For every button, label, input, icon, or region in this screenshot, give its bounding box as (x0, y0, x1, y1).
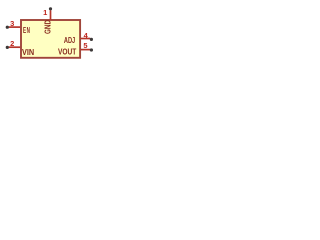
svg-text:1: 1 (43, 8, 47, 17)
svg-text:2: 2 (10, 39, 14, 48)
svg-text:5: 5 (83, 41, 87, 50)
svg-text:VIN: VIN (22, 48, 34, 57)
node dot pin 2 (6, 46, 9, 49)
svg-text:3: 3 (10, 19, 14, 28)
wire pin 4 ADJ (81, 38, 90, 40)
wire pin 1 GND (50, 10, 52, 20)
IC body U1 (21, 20, 80, 58)
wire pin 3 EN (9, 26, 21, 28)
svg-text:GND: GND (43, 20, 52, 34)
node dot pin 4 (90, 38, 93, 41)
svg-text:VOUT: VOUT (58, 48, 76, 57)
wire pin 2 VIN (9, 46, 21, 48)
svg-text:ADJ: ADJ (64, 36, 75, 45)
node dot pin 5 (90, 48, 93, 51)
node dot pin 1 (49, 7, 52, 10)
node dot pin 3 (6, 26, 9, 29)
svg-text:N: N (27, 26, 30, 35)
wire pin 5 VOUT (81, 49, 90, 51)
